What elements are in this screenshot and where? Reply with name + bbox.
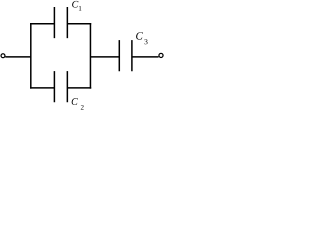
capacitor C3 right plate: [131, 40, 133, 71]
wire: middle from right junction to C3: [90, 56, 119, 58]
capacitor C1 right plate: [66, 7, 68, 38]
label C1: [72, 1, 78, 8]
wire: bottom branch right horizontal: [67, 87, 91, 89]
wire: C3 to right terminal: [132, 56, 159, 58]
label C2 subscript 2: [81, 105, 84, 110]
terminal circle left: [1, 54, 5, 58]
capacitor C2 left plate: [53, 71, 55, 102]
capacitor C1 left plate: [53, 7, 55, 38]
label C1 subscript 1: [79, 6, 81, 11]
wire: left junction vertical: [30, 23, 32, 89]
capacitor C2 right plate: [66, 71, 68, 102]
label C3: [136, 32, 143, 39]
label C3 subscript 3: [144, 39, 147, 44]
wire: right junction vertical: [89, 23, 91, 89]
wire: top branch left horizontal: [30, 23, 54, 25]
wire: left terminal to left junction: [5, 56, 31, 58]
wire: top branch right horizontal: [67, 23, 91, 25]
label C2: [72, 98, 78, 105]
capacitor C3 left plate: [118, 40, 120, 71]
wire: bottom branch left horizontal: [30, 87, 54, 89]
terminal circle right: [159, 53, 163, 57]
